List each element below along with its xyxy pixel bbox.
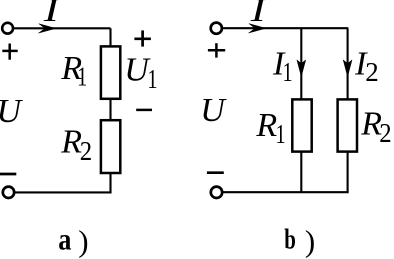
current arrow I1 (b) [297, 60, 306, 77]
svg-text:I: I [250, 0, 268, 29]
label R2 (a) [60, 124, 92, 167]
terminal b-bottom [211, 187, 222, 198]
svg-text:): ) [305, 224, 315, 259]
label I (b) [250, 0, 268, 29]
label R2 (b) [360, 105, 391, 148]
terminal a-top [2, 23, 13, 34]
svg-text:2: 2 [379, 118, 391, 148]
svg-text:I: I [43, 0, 61, 29]
svg-text:U: U [200, 92, 227, 129]
resistor R2 (b) [338, 99, 357, 151]
svg-text:R: R [255, 107, 277, 144]
terminal a-bottom [3, 187, 14, 198]
minus mark source (b) [207, 171, 224, 174]
wire a corner vertical into R1 [109, 28, 111, 46]
wire b below R2 [347, 151, 349, 192]
wire b bottom horizontal [223, 191, 348, 193]
plus mark source (b) [208, 43, 225, 57]
wire a bottom horizontal [16, 191, 112, 193]
plus mark U1 [134, 30, 151, 46]
wire a below R2 [109, 173, 111, 193]
label U1 [124, 51, 157, 94]
resistor R2 (a) [101, 120, 120, 173]
label I1 (b) [272, 46, 293, 88]
minus mark source (a) [0, 173, 16, 176]
current arrow I2 (b) [343, 60, 352, 77]
wire b branch 1 vertical [300, 28, 302, 99]
svg-text:2: 2 [80, 136, 92, 166]
svg-text:1: 1 [147, 65, 157, 94]
caption b) [284, 223, 315, 258]
minus mark U1 [136, 109, 152, 112]
wire b branch 2 vertical [347, 28, 349, 99]
resistor R1 (b) [292, 99, 311, 151]
current arrow I (b) [249, 24, 266, 33]
svg-text:): ) [78, 224, 88, 259]
label R1 (b) [255, 107, 285, 150]
wire a between R1 and R2 [109, 99, 111, 120]
svg-text:2: 2 [365, 57, 379, 87]
caption a) [58, 223, 88, 259]
label I2 (b) [354, 46, 379, 88]
label U (b) [200, 92, 227, 129]
svg-text:b: b [284, 223, 296, 255]
label U (a) [0, 93, 24, 130]
svg-text:1: 1 [77, 63, 87, 92]
wire b below R1 [300, 151, 302, 192]
label R1 (a) [60, 50, 87, 92]
terminal b-top [211, 23, 222, 34]
plus mark source (a) [2, 44, 17, 60]
label I (a) [43, 0, 61, 29]
current arrow I (a) [39, 24, 56, 33]
svg-text:a: a [58, 223, 71, 257]
wire a top horizontal [14, 27, 111, 29]
svg-text:1: 1 [276, 120, 286, 149]
svg-text:U: U [0, 93, 24, 130]
wire b top horizontal [223, 27, 349, 29]
svg-text:1: 1 [283, 58, 293, 87]
resistor R1 (a) [101, 46, 120, 98]
